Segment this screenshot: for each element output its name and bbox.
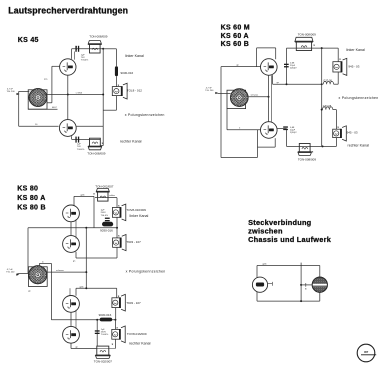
svg-text:x Polungskennzeichen: x Polungskennzeichen (125, 113, 165, 117)
svg-text:9030-016: 9030-016 (100, 228, 113, 232)
svg-text:KS 45: KS 45 (18, 37, 39, 44)
svg-text:TON-002/007: TON-002/007 (95, 184, 113, 188)
svg-text:T903 - 107: T903 - 107 (126, 240, 141, 244)
svg-text:2(50)V: 2(50)V (290, 68, 297, 70)
svg-text:TON-008/009: TON-008/009 (298, 32, 316, 36)
svg-text:KS 80 B: KS 80 B (17, 205, 46, 212)
svg-text:KS 60 M: KS 60 M (221, 25, 250, 32)
svg-text:rechter Kanal: rechter Kanal (129, 341, 151, 345)
svg-text:TGL4%: TGL4% (81, 60, 88, 62)
svg-text:INT: INT (364, 350, 369, 354)
svg-text:945 - 03: 945 - 03 (348, 65, 359, 69)
svg-text:TOV8-016/009: TOV8-016/009 (126, 208, 146, 212)
svg-text:9030-016: 9030-016 (99, 313, 112, 317)
svg-text:x Polungskennzeichen: x Polungskennzeichen (126, 269, 166, 273)
svg-text:außen: außen (109, 195, 115, 197)
svg-text:9030-016: 9030-016 (121, 71, 134, 75)
svg-text:linker Kanal: linker Kanal (125, 54, 144, 58)
svg-text:T903 - 107: T903 - 107 (126, 301, 141, 305)
svg-text:rechter Kanal: rechter Kanal (120, 140, 142, 144)
svg-text:TGL4%: TGL4% (101, 215, 108, 217)
svg-text:TON-008/009: TON-008/009 (87, 151, 105, 155)
svg-text:linker Kanal: linker Kanal (346, 48, 365, 52)
svg-text:schwarz: schwarz (56, 269, 64, 272)
svg-text:TON-008/009: TON-008/009 (298, 158, 316, 162)
svg-text:TON-002/007: TON-002/007 (94, 359, 112, 363)
svg-text:G37-08: G37-08 (323, 105, 332, 108)
svg-text:G37-08: G37-08 (323, 79, 332, 82)
svg-text:TGL 200: TGL 200 (205, 90, 214, 92)
svg-text:Lautsprecherverdrahtungen: Lautsprecherverdrahtungen (8, 6, 128, 16)
svg-text:945 - 03: 945 - 03 (347, 130, 358, 134)
svg-text:TOL8 - 012: TOL8 - 012 (127, 88, 142, 92)
svg-text:TGL4%: TGL4% (101, 334, 108, 336)
svg-text:4,7 nF: 4,7 nF (7, 88, 14, 90)
svg-text:4,7 nF: 4,7 nF (206, 87, 213, 89)
svg-text:2(50)V: 2(50)V (290, 132, 297, 134)
svg-text:TON-008/009: TON-008/009 (89, 34, 107, 38)
svg-text:schwarz: schwarz (251, 94, 259, 97)
svg-text:KS 60 A: KS 60 A (221, 33, 249, 40)
svg-text:KS 60 B: KS 60 B (221, 41, 250, 48)
svg-text:Chassis und Laufwerk: Chassis und Laufwerk (248, 235, 332, 244)
svg-text:KS 80: KS 80 (17, 186, 38, 193)
svg-text:L 5903: L 5903 (76, 92, 83, 94)
svg-text:KS 80 A: KS 80 A (17, 195, 45, 202)
svg-text:TGL 200: TGL 200 (6, 272, 15, 274)
svg-text:4,7 nF: 4,7 nF (7, 269, 14, 271)
svg-text:TGL4%: TGL4% (77, 149, 84, 151)
svg-text:linker Kanal: linker Kanal (130, 214, 149, 218)
svg-text:rechter Kanal: rechter Kanal (348, 144, 370, 148)
svg-text:TGL 200: TGL 200 (7, 91, 16, 93)
svg-text:x Polungskennzeichen: x Polungskennzeichen (339, 96, 379, 100)
svg-text:TOV8-016/009: TOV8-016/009 (127, 332, 147, 336)
